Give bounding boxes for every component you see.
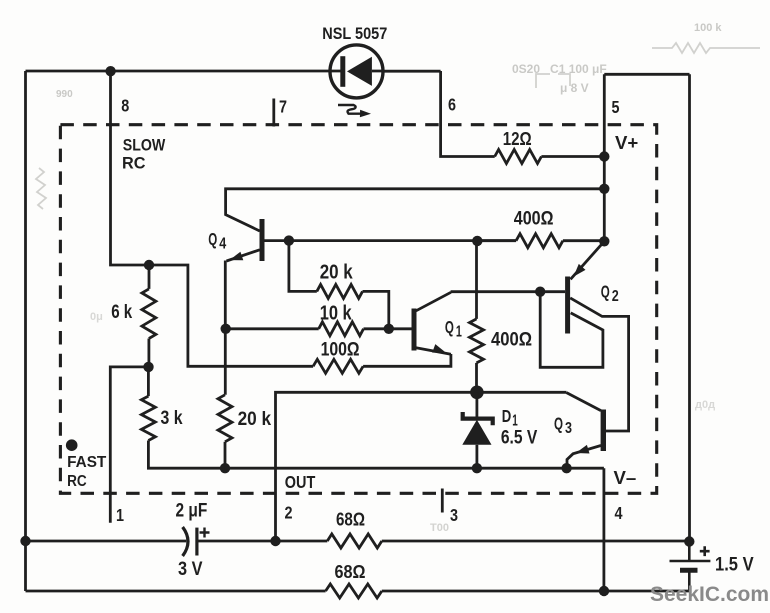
wire outer left side xyxy=(24,71,27,591)
svg-text:Q: Q xyxy=(208,229,217,249)
label 400Ω xyxy=(514,209,554,230)
Q3 emitter arrow xyxy=(576,445,590,454)
node junction 6k/3k/pin1 xyxy=(143,362,153,372)
transistor Q4 emitter xyxy=(227,250,260,261)
wire 12 ohm right lead to V+ node xyxy=(541,155,604,158)
svg-text:D: D xyxy=(502,406,512,426)
capacitor 2uF curved plate xyxy=(183,527,188,556)
svg-text:68Ω: 68Ω xyxy=(336,509,365,530)
resistor 20k vertical zigzag xyxy=(218,395,232,442)
wire top right corner xyxy=(604,73,689,76)
svg-text:1: 1 xyxy=(456,324,462,341)
label SLOW RC xyxy=(122,135,166,172)
svg-text:6: 6 xyxy=(448,95,456,115)
svg-text:400Ω: 400Ω xyxy=(514,209,554,230)
svg-text:3 V: 3 V xyxy=(178,559,203,580)
label OUT xyxy=(285,472,316,492)
label NSL 5057 xyxy=(322,25,387,43)
label 3 k xyxy=(161,408,183,429)
svg-text:д0д: д0д xyxy=(695,399,715,411)
resistor 3k zigzag xyxy=(141,396,155,440)
svg-text:12Ω: 12Ω xyxy=(503,128,532,149)
Q2 emitter arrow xyxy=(574,264,586,277)
wire 100 ohm right lead to Q1 emitter xyxy=(363,354,451,366)
svg-text:3: 3 xyxy=(450,505,458,525)
node junction 6k top xyxy=(144,260,154,270)
wire 400 ohm right lead xyxy=(563,239,604,242)
pin 3 stub xyxy=(441,489,444,513)
label 20 k xyxy=(320,262,354,284)
node junction left corner / battery rail xyxy=(20,536,30,546)
svg-text:Q: Q xyxy=(601,281,610,301)
wire 20k drop xyxy=(289,241,317,292)
pin 7 stub xyxy=(272,99,275,127)
Q1 emitter arrow xyxy=(432,344,446,353)
svg-text:4: 4 xyxy=(615,503,623,523)
svg-text:Q: Q xyxy=(445,317,454,337)
wire 400 ohm vertical bottom lead xyxy=(475,363,478,392)
wire OUT rail from pin 2 xyxy=(276,392,567,541)
label pin 5 xyxy=(612,97,620,117)
resistor 100Ω zigzag xyxy=(313,359,363,373)
watermark SeekIC.com xyxy=(650,582,769,606)
wire ground rail right segment xyxy=(382,590,690,593)
wire outer right side xyxy=(688,74,691,541)
wire LED cathode to pin 6 corner xyxy=(383,70,441,73)
LED cathode bar xyxy=(340,56,345,87)
transistor Q1 collector xyxy=(416,292,540,311)
label Q4 xyxy=(208,229,226,253)
wire 6k-3k node to pin 1 xyxy=(110,367,148,523)
resistor 68Ω lower zigzag xyxy=(326,584,382,598)
svg-text:FAST: FAST xyxy=(67,454,106,471)
IC dashed boundary box xyxy=(60,125,656,494)
transistor Q3 emitter xyxy=(567,446,601,469)
wire battery rail right of capacitor xyxy=(197,540,327,543)
svg-text:8: 8 xyxy=(121,95,129,115)
capacitor 2uF straight plate xyxy=(195,528,198,556)
label pin 7 xyxy=(279,97,287,117)
battery 1.5V cell xyxy=(670,542,711,592)
node junction Q1 base / 20k / 10k xyxy=(384,324,394,334)
svg-text:3 k: 3 k xyxy=(161,408,183,429)
wire 20k right to 10k row xyxy=(363,291,389,328)
svg-text:0S20 C1 100 μF: 0S20 C1 100 μF xyxy=(512,62,607,76)
svg-text:4: 4 xyxy=(219,236,226,253)
capacitor plus sign xyxy=(200,528,210,538)
transistor Q2 lower collector feedback to base node xyxy=(540,292,603,368)
resistor 6k zigzag xyxy=(142,289,156,339)
wire 10k right to Q1 base xyxy=(364,327,413,330)
label 12Ω xyxy=(503,128,532,149)
diode D1 zener triangle xyxy=(462,420,491,445)
label Q2 xyxy=(601,281,619,305)
label 6.5 V xyxy=(501,428,538,449)
wire battery rail to battery plus xyxy=(382,540,690,543)
label 3 V xyxy=(178,559,203,580)
svg-text:68Ω: 68Ω xyxy=(335,561,366,582)
node junction 10k / Q4 emitter column xyxy=(221,324,231,334)
wire 10k row from Q4 emitter column xyxy=(226,327,319,330)
label Q1 xyxy=(445,317,462,341)
label V- xyxy=(614,468,637,488)
svg-text:NSL 5057: NSL 5057 xyxy=(322,25,387,43)
svg-text:6 k: 6 k xyxy=(111,302,132,323)
LED NSL5057 circle xyxy=(330,45,383,98)
label 6 k xyxy=(111,302,132,323)
LED wire inside circle xyxy=(330,70,383,73)
wire 3k leads xyxy=(148,367,224,468)
label pin 1 xyxy=(116,505,124,525)
label pin 2 xyxy=(285,503,293,523)
diode D1 zener cathode bar xyxy=(463,412,493,425)
node junction Q4 collector rail / V+ rail xyxy=(599,184,609,194)
svg-text:SeekIC.com: SeekIC.com xyxy=(650,582,769,606)
label 1.5 V xyxy=(715,555,754,576)
label 68Ω lower xyxy=(335,561,366,582)
node junction OUT rail / D1 / 400 ohm xyxy=(470,386,484,400)
svg-text:μ 8 V: μ 8 V xyxy=(560,81,589,95)
label 2 μF xyxy=(176,501,208,522)
resistor 400Ω vertical zigzag xyxy=(470,319,484,363)
wire pin 4 vertical xyxy=(603,468,606,591)
svg-text:OUT: OUT xyxy=(285,472,316,492)
wire 400 ohm vertical top lead xyxy=(475,241,478,319)
Q4 emitter arrow xyxy=(230,252,244,261)
svg-text:V–: V– xyxy=(614,468,637,488)
node junction 12 ohm / V+ rail xyxy=(599,151,609,161)
svg-text:1: 1 xyxy=(116,505,124,525)
label 10 k xyxy=(320,303,353,325)
resistor 10k zigzag xyxy=(319,322,364,336)
label 100Ω xyxy=(321,338,360,360)
node junction 20k bottom / V- rail xyxy=(220,463,230,473)
node junction pin8 / top rail xyxy=(105,66,115,76)
label 68Ω upper xyxy=(336,509,365,530)
wire ground rail xyxy=(26,590,326,593)
wire top rail from left corner to LED anode xyxy=(26,70,331,73)
wire 6k top across to 100 ohm row xyxy=(149,265,313,366)
svg-text:V+: V+ xyxy=(615,133,638,153)
wire pin 5 / V+ vertical xyxy=(603,74,606,241)
wire Q4 base rail to 400 ohm xyxy=(289,239,516,242)
svg-text:20 k: 20 k xyxy=(238,409,272,430)
LED light emission squiggle arrow xyxy=(338,105,371,117)
wire 6k leads xyxy=(147,265,150,367)
wire Q4 base rail 400 ohm lead xyxy=(477,239,516,242)
svg-text:1.5 V: 1.5 V xyxy=(715,555,754,576)
LED triangle xyxy=(347,57,372,86)
label pin 8 xyxy=(121,95,129,115)
svg-text:6.5 V: 6.5 V xyxy=(501,428,538,449)
resistor 12Ω zigzag xyxy=(495,150,542,164)
wire Q2 base xyxy=(540,290,565,293)
transistor Q3 base bar xyxy=(601,410,606,452)
wire battery rail left segment xyxy=(26,540,187,543)
svg-text:2: 2 xyxy=(285,503,293,523)
svg-text:400Ω: 400Ω xyxy=(491,330,532,351)
transistor Q3 collector diagonal xyxy=(567,393,601,411)
node junction battery plus xyxy=(684,536,694,546)
wire Q4 collector rail from V+ node xyxy=(226,189,605,231)
svg-text:2: 2 xyxy=(612,288,619,305)
label D1 xyxy=(502,406,518,430)
node junction Q4 base / 20k drop xyxy=(284,235,294,245)
transistor Q2 upper collector to Q3 base xyxy=(570,298,628,431)
resistor 400Ω zigzag xyxy=(516,234,563,248)
svg-text:RC: RC xyxy=(122,154,146,173)
transistor Q1 base bar xyxy=(412,309,417,351)
label 400Ω vertical xyxy=(491,330,532,351)
transistor Q1 emitter xyxy=(416,348,451,355)
label pin 4 xyxy=(615,503,623,523)
diode D1 zener top lead xyxy=(475,392,478,417)
FAST RC bullet xyxy=(66,439,78,451)
resistor 20k zigzag xyxy=(317,284,363,298)
diode D1 bottom lead xyxy=(475,445,478,468)
label FAST RC xyxy=(67,454,106,490)
node junction Q1 collector / Q2 base xyxy=(535,287,545,297)
svg-text:7: 7 xyxy=(279,97,287,117)
label 20 k vertical xyxy=(238,409,272,430)
svg-text:3: 3 xyxy=(565,420,572,437)
wire Q4 emitter column down to 20k xyxy=(224,261,227,395)
svg-text:SLOW: SLOW xyxy=(123,135,166,154)
wire pin 6 down to 12 ohm resistor xyxy=(441,71,495,157)
node junction D1 / V- rail xyxy=(472,463,482,473)
wire V- rail xyxy=(224,467,604,470)
svg-text:0μ: 0μ xyxy=(90,311,103,323)
node junction pin 2 / battery rail xyxy=(270,536,280,546)
transistor Q4 base bar xyxy=(260,219,265,261)
label pin 3 xyxy=(450,505,458,525)
wire pin 8 vertical from top rail xyxy=(111,71,150,265)
svg-text:10 k: 10 k xyxy=(320,303,353,325)
svg-text:Q: Q xyxy=(554,413,563,433)
svg-text:100Ω: 100Ω xyxy=(321,338,360,360)
svg-text:100 k: 100 k xyxy=(694,22,722,34)
svg-text:5: 5 xyxy=(612,97,620,117)
transistor Q2 base bar xyxy=(565,277,570,334)
svg-text:20 k: 20 k xyxy=(320,262,354,284)
node junction Q3 emitter / V- rail xyxy=(561,463,571,473)
label Q3 xyxy=(554,413,572,437)
svg-text:T00: T00 xyxy=(430,522,449,534)
label pin 6 xyxy=(448,95,456,115)
label V+ xyxy=(615,133,638,153)
svg-text:990: 990 xyxy=(56,89,73,100)
node junction 400 ohm vertical / Q4 base rail xyxy=(472,236,482,246)
resistor 68Ω upper zigzag xyxy=(327,534,382,548)
wire 20k vertical bottom lead xyxy=(224,442,227,468)
svg-text:2 μF: 2 μF xyxy=(176,501,208,522)
wire Q4 base to rail xyxy=(264,239,289,242)
svg-text:RC: RC xyxy=(67,473,87,490)
node junction 400 ohm / Q2 emitter / V+ xyxy=(599,236,609,246)
node junction pin 4 / ground rail xyxy=(599,586,609,596)
battery plus sign xyxy=(700,546,710,556)
transistor Q2 emitter from V+ node xyxy=(571,241,605,279)
